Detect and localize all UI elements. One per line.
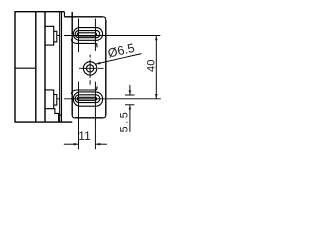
40 dim arrowhead bottom xyxy=(155,94,158,99)
slot arc centerline / extension right (upper) xyxy=(94,19,96,52)
rear leaf contour below top slot xyxy=(71,39,97,47)
slot arc centerline / extension left (upper) xyxy=(78,19,80,53)
bottom slot middle outline xyxy=(75,95,100,103)
center hole outer circle xyxy=(83,62,96,75)
side view: top knuckle small boss xyxy=(54,31,57,42)
front plate right edge xyxy=(105,20,107,116)
side view: top knuckle tab xyxy=(45,26,54,45)
side view: bottom knuckle small boss xyxy=(54,95,57,106)
front plate top edge xyxy=(64,16,102,18)
top slot inner outline xyxy=(77,33,96,36)
hole horizontal centerline xyxy=(79,67,104,69)
5.5 dimension extension stub top xyxy=(125,94,134,96)
top slot middle outline xyxy=(75,31,100,38)
slot arc centerline / extension right (lower) xyxy=(94,82,96,150)
svg-text:40: 40 xyxy=(145,60,157,72)
side view: top edge xyxy=(15,11,65,13)
40 dim arrowhead top xyxy=(155,36,158,41)
side view: bottom knuckle tab xyxy=(45,90,54,109)
hole vertical centerline xyxy=(89,55,91,85)
side view: bottom edge xyxy=(15,121,73,123)
side view: second layer edge xyxy=(44,12,46,122)
side view: bottom step xyxy=(54,109,59,122)
svg-text:11: 11 xyxy=(78,129,91,143)
5.5 dimension line xyxy=(129,85,131,132)
front plate bottom-right corner xyxy=(103,115,106,118)
center hole inner circle xyxy=(86,65,93,72)
hinge pin right edge xyxy=(61,12,63,122)
svg-text:5.5: 5.5 xyxy=(118,110,130,133)
rear leaf contour above bottom slot xyxy=(71,86,97,94)
top slot outer outline xyxy=(73,28,102,41)
front plate top-right corner xyxy=(103,17,106,20)
bottom slot horizontal centerline xyxy=(58,98,161,100)
5.5 dimension extension stub bottom xyxy=(125,104,134,106)
11 dim arrowhead left xyxy=(95,143,100,146)
side view: body right edge xyxy=(35,12,37,122)
technical drawing: hinge with slotted holes, dims Ø6.5 / 40 / 5.5 / 11 xyxy=(0,0,172,161)
hinge pin left edge xyxy=(59,12,61,122)
11 dimension line left tail xyxy=(64,143,79,145)
5.5 dim arrowhead up xyxy=(129,105,132,110)
top slot horizontal centerline xyxy=(58,35,161,37)
40 dimension line xyxy=(155,36,157,99)
leader line for hole callout xyxy=(95,54,141,65)
5.5 dim arrowhead down xyxy=(129,90,132,95)
hinge pin bottom cap xyxy=(59,114,62,116)
slot arc centerline / extension left (lower) xyxy=(78,82,80,150)
front plate bottom edge xyxy=(75,117,104,119)
bottom slot inner outline xyxy=(77,97,96,100)
11 dim arrowhead right xyxy=(74,143,79,146)
side view: body left edge xyxy=(14,12,16,122)
front plate left edge xyxy=(71,12,73,115)
11 dimension line right tail xyxy=(95,143,107,145)
leader arrowhead at hole xyxy=(95,62,100,64)
step down from side view top edge xyxy=(63,12,65,17)
bottom slot outer outline xyxy=(73,92,102,106)
front plate bottom-left corner xyxy=(72,115,75,118)
side view: mid horizontal line xyxy=(15,67,36,69)
